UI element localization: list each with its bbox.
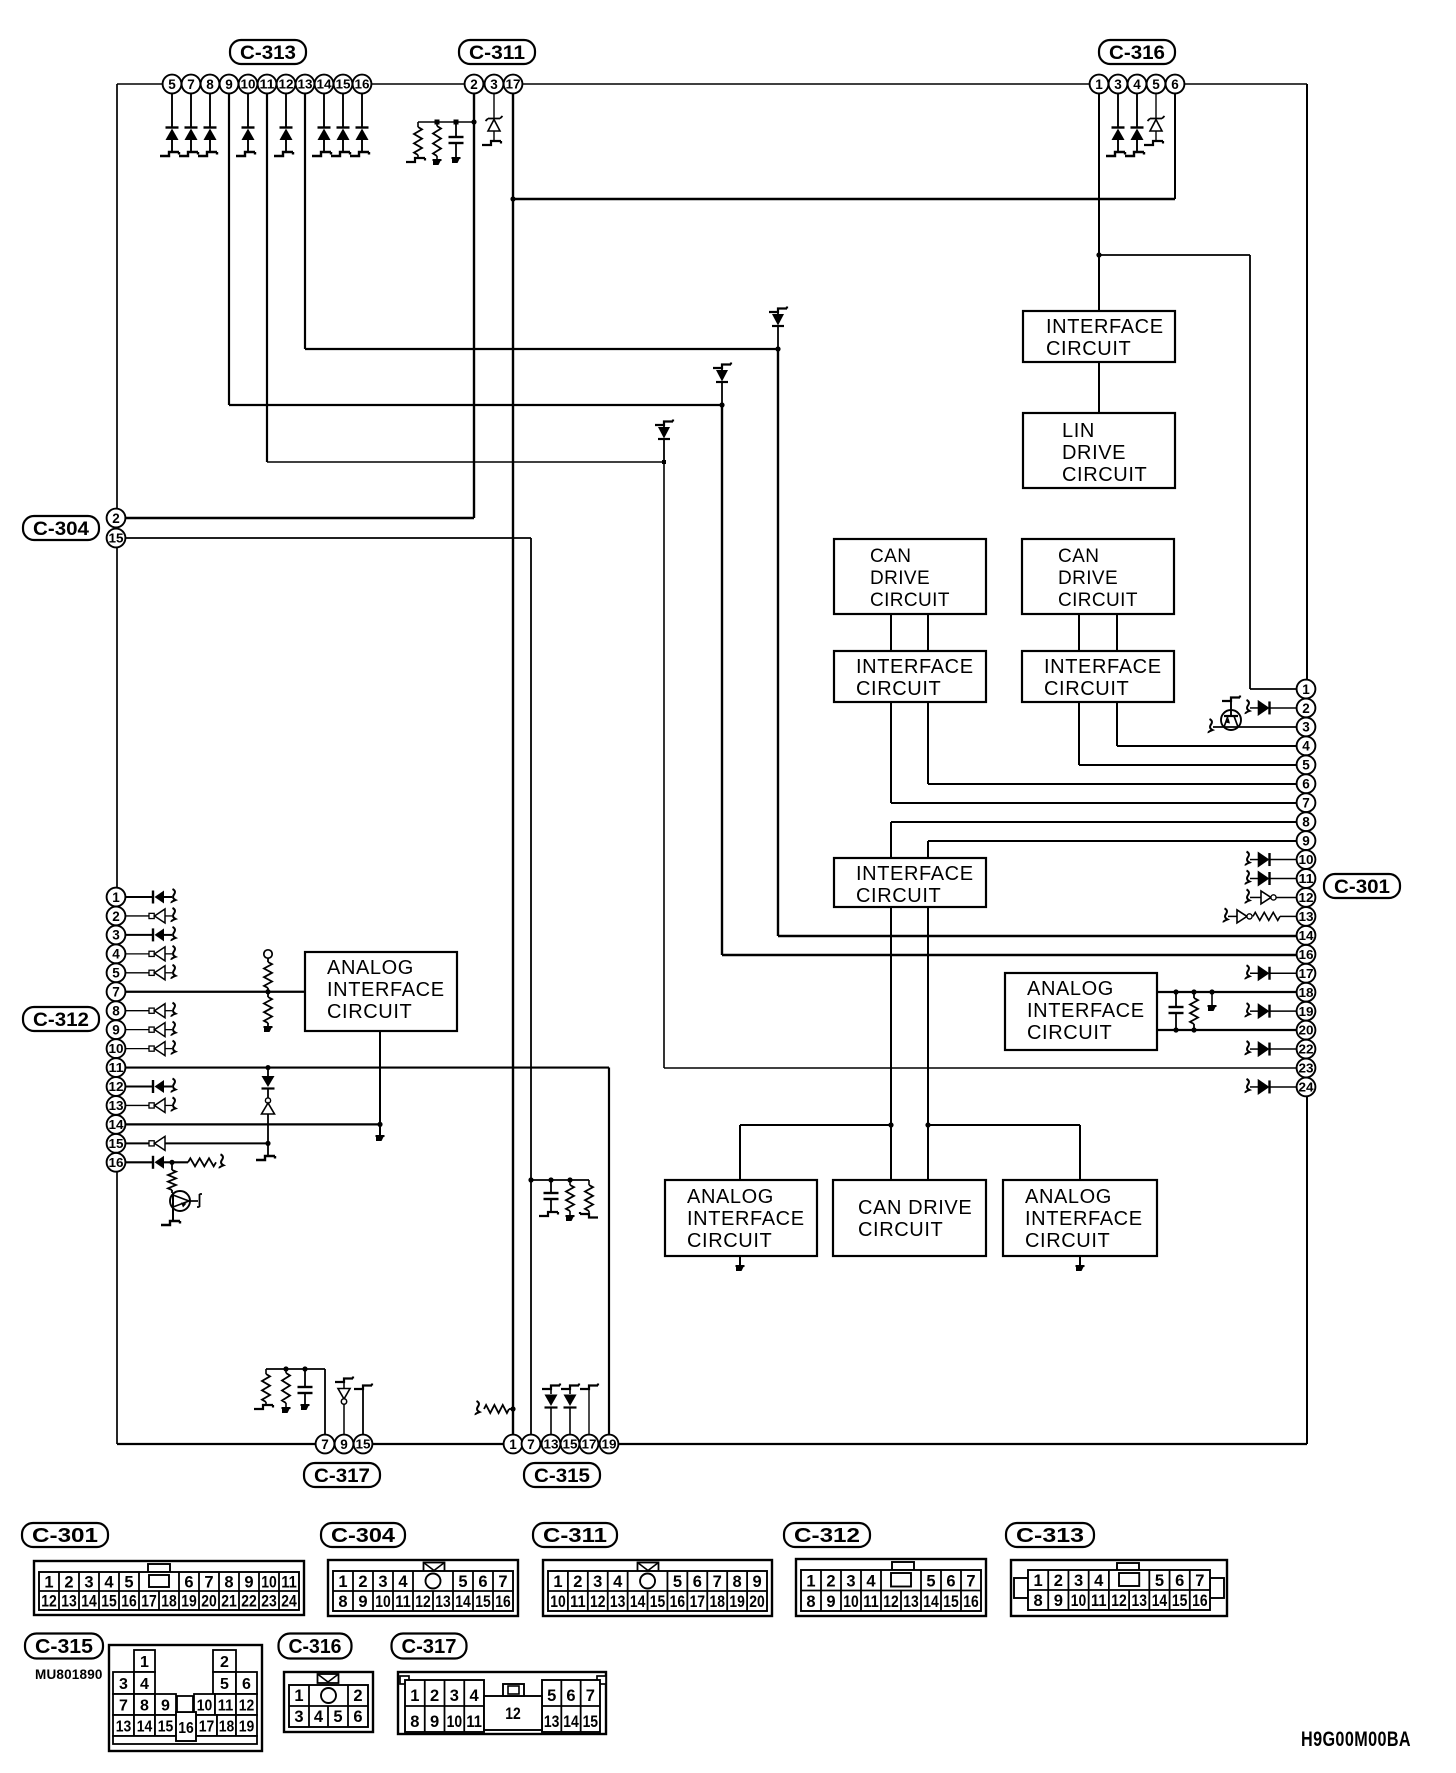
svg-text:7: 7 xyxy=(527,1437,535,1452)
svg-text:INTERFACE: INTERFACE xyxy=(327,979,445,1001)
svg-text:15: 15 xyxy=(943,1593,959,1611)
svg-text:8: 8 xyxy=(1302,814,1310,829)
svg-text:22: 22 xyxy=(1299,1043,1314,1057)
svg-text:2: 2 xyxy=(1302,701,1310,716)
svg-text:12: 12 xyxy=(1111,1592,1127,1610)
svg-text:3: 3 xyxy=(119,1676,128,1693)
svg-text:16: 16 xyxy=(963,1593,979,1611)
svg-text:5: 5 xyxy=(333,1708,342,1726)
svg-text:13: 13 xyxy=(61,1593,77,1611)
svg-text:5: 5 xyxy=(673,1573,682,1591)
svg-text:18: 18 xyxy=(709,1593,725,1611)
svg-text:9: 9 xyxy=(225,77,233,92)
svg-text:5: 5 xyxy=(458,1573,467,1591)
svg-text:15: 15 xyxy=(356,1438,371,1452)
svg-text:8: 8 xyxy=(140,1698,149,1715)
svg-text:1: 1 xyxy=(140,1654,149,1671)
svg-text:3: 3 xyxy=(112,928,120,943)
svg-text:15: 15 xyxy=(109,1137,124,1151)
svg-text:7: 7 xyxy=(321,1437,329,1452)
svg-text:6: 6 xyxy=(1302,777,1310,792)
svg-text:9: 9 xyxy=(244,1574,253,1592)
svg-text:4: 4 xyxy=(866,1572,876,1590)
svg-text:ANALOG: ANALOG xyxy=(1027,978,1114,1000)
svg-text:5: 5 xyxy=(124,1574,133,1592)
svg-text:4: 4 xyxy=(314,1708,324,1726)
svg-text:8: 8 xyxy=(112,1004,120,1019)
svg-text:11: 11 xyxy=(863,1593,879,1611)
svg-text:12: 12 xyxy=(41,1593,57,1611)
svg-text:15: 15 xyxy=(336,78,351,92)
svg-text:2: 2 xyxy=(826,1572,835,1590)
svg-text:15: 15 xyxy=(563,1438,578,1452)
svg-text:11: 11 xyxy=(109,1061,124,1075)
svg-text:13: 13 xyxy=(1131,1592,1147,1610)
svg-text:1: 1 xyxy=(410,1687,419,1705)
svg-text:C-313: C-313 xyxy=(1016,1525,1084,1547)
svg-text:17: 17 xyxy=(690,1593,706,1611)
svg-text:14: 14 xyxy=(923,1593,939,1611)
svg-text:9: 9 xyxy=(826,1593,835,1611)
svg-text:12: 12 xyxy=(883,1593,899,1611)
svg-text:12: 12 xyxy=(279,78,294,92)
svg-text:CIRCUIT: CIRCUIT xyxy=(856,885,941,907)
svg-text:9: 9 xyxy=(161,1698,170,1715)
svg-text:C-316: C-316 xyxy=(1109,42,1165,64)
svg-text:16: 16 xyxy=(1192,1592,1208,1610)
svg-text:12: 12 xyxy=(590,1593,606,1611)
svg-text:14: 14 xyxy=(563,1713,579,1731)
svg-text:15: 15 xyxy=(1172,1592,1188,1610)
svg-text:C-311: C-311 xyxy=(469,42,525,64)
svg-text:5: 5 xyxy=(926,1572,935,1590)
svg-text:6: 6 xyxy=(946,1572,955,1590)
svg-text:5: 5 xyxy=(1302,758,1310,773)
svg-text:13: 13 xyxy=(116,1719,132,1736)
svg-text:C-316: C-316 xyxy=(289,1636,342,1658)
svg-text:10: 10 xyxy=(447,1713,463,1731)
svg-text:4: 4 xyxy=(1133,77,1141,92)
svg-text:14: 14 xyxy=(317,78,332,92)
svg-text:17: 17 xyxy=(1299,967,1314,981)
svg-text:14: 14 xyxy=(109,1118,124,1132)
svg-text:22: 22 xyxy=(241,1593,257,1611)
svg-text:2: 2 xyxy=(64,1574,73,1592)
svg-text:C-315: C-315 xyxy=(35,1636,93,1658)
svg-text:10: 10 xyxy=(550,1593,566,1611)
svg-text:8: 8 xyxy=(733,1573,742,1591)
svg-text:2: 2 xyxy=(112,511,120,526)
svg-text:19: 19 xyxy=(1299,1005,1314,1019)
svg-text:1: 1 xyxy=(44,1574,53,1592)
svg-text:6: 6 xyxy=(566,1687,575,1705)
svg-text:12: 12 xyxy=(415,1593,431,1611)
svg-text:12: 12 xyxy=(239,1698,255,1715)
svg-text:15: 15 xyxy=(475,1593,491,1611)
svg-text:7: 7 xyxy=(1302,796,1310,811)
svg-text:15: 15 xyxy=(158,1719,174,1736)
svg-text:10: 10 xyxy=(241,78,256,92)
svg-text:DRIVE: DRIVE xyxy=(1058,568,1118,589)
svg-text:1: 1 xyxy=(294,1687,303,1705)
svg-text:4: 4 xyxy=(470,1687,480,1705)
svg-text:7: 7 xyxy=(204,1574,213,1592)
svg-text:14: 14 xyxy=(1152,1592,1168,1610)
svg-text:14: 14 xyxy=(1299,929,1314,943)
svg-text:24: 24 xyxy=(281,1593,297,1611)
svg-text:6: 6 xyxy=(242,1676,251,1693)
svg-text:15: 15 xyxy=(109,532,124,546)
svg-text:H9G00M00BA: H9G00M00BA xyxy=(1301,1728,1411,1751)
svg-text:5: 5 xyxy=(547,1687,556,1705)
svg-text:9: 9 xyxy=(340,1437,348,1452)
svg-text:13: 13 xyxy=(544,1713,560,1731)
svg-text:10: 10 xyxy=(375,1593,391,1611)
svg-text:7: 7 xyxy=(1195,1572,1204,1590)
svg-text:19: 19 xyxy=(729,1593,745,1611)
svg-text:CIRCUIT: CIRCUIT xyxy=(870,590,950,611)
svg-text:11: 11 xyxy=(1091,1592,1107,1610)
svg-text:1: 1 xyxy=(553,1573,562,1591)
svg-text:17: 17 xyxy=(141,1593,157,1611)
svg-text:1: 1 xyxy=(338,1573,347,1591)
svg-text:16: 16 xyxy=(1299,948,1314,962)
svg-text:7: 7 xyxy=(713,1573,722,1591)
svg-text:9: 9 xyxy=(1054,1592,1063,1610)
svg-text:4: 4 xyxy=(1302,739,1310,754)
svg-text:19: 19 xyxy=(181,1593,197,1611)
svg-text:7: 7 xyxy=(966,1572,975,1590)
svg-text:16: 16 xyxy=(109,1156,124,1170)
svg-text:13: 13 xyxy=(544,1438,559,1452)
svg-text:11: 11 xyxy=(466,1713,482,1731)
svg-text:7: 7 xyxy=(112,985,120,1000)
svg-text:7: 7 xyxy=(586,1687,595,1705)
svg-text:2: 2 xyxy=(573,1573,582,1591)
svg-text:8: 8 xyxy=(410,1713,419,1731)
svg-text:4: 4 xyxy=(1094,1572,1104,1590)
svg-text:4: 4 xyxy=(104,1574,114,1592)
svg-text:8: 8 xyxy=(338,1593,347,1611)
svg-text:8: 8 xyxy=(224,1574,233,1592)
svg-text:MU801890: MU801890 xyxy=(35,1667,103,1682)
svg-text:5: 5 xyxy=(112,966,120,981)
svg-text:9: 9 xyxy=(752,1573,761,1591)
svg-text:17: 17 xyxy=(582,1438,597,1452)
svg-text:11: 11 xyxy=(260,78,275,92)
svg-text:CIRCUIT: CIRCUIT xyxy=(1058,590,1138,611)
svg-text:24: 24 xyxy=(1299,1081,1314,1095)
svg-text:4: 4 xyxy=(613,1573,623,1591)
svg-text:INTERFACE: INTERFACE xyxy=(1046,316,1164,338)
svg-text:2: 2 xyxy=(112,909,120,924)
svg-text:16: 16 xyxy=(178,1720,194,1737)
svg-text:15: 15 xyxy=(583,1713,599,1731)
svg-text:10: 10 xyxy=(1299,853,1314,867)
svg-text:12: 12 xyxy=(505,1705,521,1723)
svg-text:19: 19 xyxy=(239,1719,255,1736)
svg-text:9: 9 xyxy=(430,1713,439,1731)
svg-text:CIRCUIT: CIRCUIT xyxy=(1044,678,1129,700)
svg-text:9: 9 xyxy=(1302,833,1310,848)
svg-text:13: 13 xyxy=(298,78,313,92)
svg-text:DRIVE: DRIVE xyxy=(870,568,930,589)
svg-text:9: 9 xyxy=(358,1593,367,1611)
svg-text:5: 5 xyxy=(220,1676,229,1693)
svg-text:CIRCUIT: CIRCUIT xyxy=(1027,1022,1112,1044)
svg-text:8: 8 xyxy=(806,1593,815,1611)
svg-text:INTERFACE: INTERFACE xyxy=(687,1208,805,1230)
svg-text:11: 11 xyxy=(395,1593,411,1611)
svg-text:CIRCUIT: CIRCUIT xyxy=(327,1001,412,1023)
svg-text:8: 8 xyxy=(1034,1592,1043,1610)
svg-text:14: 14 xyxy=(137,1719,153,1736)
svg-text:7: 7 xyxy=(498,1573,507,1591)
svg-text:4: 4 xyxy=(112,947,120,962)
svg-text:17: 17 xyxy=(506,78,521,92)
svg-text:C-313: C-313 xyxy=(240,42,296,64)
svg-text:12: 12 xyxy=(109,1080,124,1094)
svg-text:2: 2 xyxy=(430,1687,439,1705)
svg-text:13: 13 xyxy=(903,1593,919,1611)
svg-text:C-317: C-317 xyxy=(402,1636,457,1658)
svg-text:3: 3 xyxy=(294,1708,303,1726)
svg-text:11: 11 xyxy=(570,1593,586,1611)
svg-text:6: 6 xyxy=(1175,1572,1184,1590)
svg-text:19: 19 xyxy=(602,1438,617,1452)
svg-text:C-301: C-301 xyxy=(32,1525,98,1547)
svg-text:6: 6 xyxy=(184,1574,193,1592)
svg-text:ANALOG: ANALOG xyxy=(687,1186,774,1208)
svg-text:CIRCUIT: CIRCUIT xyxy=(858,1219,943,1241)
svg-text:16: 16 xyxy=(355,78,370,92)
svg-text:C-304: C-304 xyxy=(331,1525,396,1547)
svg-text:11: 11 xyxy=(1299,872,1314,886)
svg-text:6: 6 xyxy=(1171,77,1179,92)
svg-text:1: 1 xyxy=(1095,77,1103,92)
svg-text:C-304: C-304 xyxy=(33,518,89,540)
svg-text:13: 13 xyxy=(1299,910,1314,924)
svg-text:CIRCUIT: CIRCUIT xyxy=(1046,338,1131,360)
svg-text:CIRCUIT: CIRCUIT xyxy=(687,1230,772,1252)
svg-text:15: 15 xyxy=(650,1593,666,1611)
svg-text:C-301: C-301 xyxy=(1334,876,1390,898)
svg-text:14: 14 xyxy=(455,1593,471,1611)
svg-text:6: 6 xyxy=(353,1708,362,1726)
svg-text:3: 3 xyxy=(846,1572,855,1590)
svg-text:INTERFACE: INTERFACE xyxy=(1044,656,1162,678)
svg-text:15: 15 xyxy=(101,1593,117,1611)
svg-text:C-317: C-317 xyxy=(314,1465,370,1487)
svg-text:14: 14 xyxy=(630,1593,646,1611)
svg-text:CIRCUIT: CIRCUIT xyxy=(1062,464,1147,486)
svg-text:3: 3 xyxy=(593,1573,602,1591)
svg-text:INTERFACE: INTERFACE xyxy=(1025,1208,1143,1230)
svg-text:INTERFACE: INTERFACE xyxy=(856,656,974,678)
svg-text:10: 10 xyxy=(261,1574,277,1592)
svg-text:DRIVE: DRIVE xyxy=(1062,442,1126,464)
svg-text:3: 3 xyxy=(378,1573,387,1591)
svg-text:13: 13 xyxy=(109,1099,124,1113)
svg-text:CAN DRIVE: CAN DRIVE xyxy=(858,1197,972,1219)
svg-text:23: 23 xyxy=(261,1593,277,1611)
svg-text:2: 2 xyxy=(353,1687,362,1705)
svg-text:23: 23 xyxy=(1299,1062,1314,1076)
svg-text:21: 21 xyxy=(221,1593,237,1611)
svg-text:4: 4 xyxy=(140,1676,149,1693)
svg-text:CIRCUIT: CIRCUIT xyxy=(1025,1230,1110,1252)
svg-text:2: 2 xyxy=(1054,1572,1063,1590)
svg-text:6: 6 xyxy=(693,1573,702,1591)
svg-text:INTERFACE: INTERFACE xyxy=(856,863,974,885)
svg-text:10: 10 xyxy=(843,1593,859,1611)
svg-text:20: 20 xyxy=(1299,1024,1314,1038)
svg-text:C-312: C-312 xyxy=(33,1009,89,1031)
svg-text:INTERFACE: INTERFACE xyxy=(1027,1000,1145,1022)
svg-text:2: 2 xyxy=(358,1573,367,1591)
svg-text:7: 7 xyxy=(119,1698,128,1715)
svg-text:5: 5 xyxy=(1155,1572,1164,1590)
svg-text:C-312: C-312 xyxy=(794,1525,860,1547)
svg-text:10: 10 xyxy=(197,1698,213,1715)
svg-text:3: 3 xyxy=(1114,77,1122,92)
svg-text:1: 1 xyxy=(1034,1572,1043,1590)
svg-text:ANALOG: ANALOG xyxy=(327,957,414,979)
svg-text:C-315: C-315 xyxy=(534,1465,590,1487)
svg-text:18: 18 xyxy=(219,1719,235,1736)
svg-text:CAN: CAN xyxy=(870,546,911,567)
svg-text:9: 9 xyxy=(112,1022,120,1037)
svg-text:8: 8 xyxy=(206,77,214,92)
svg-text:CAN: CAN xyxy=(1058,546,1099,567)
svg-text:10: 10 xyxy=(109,1042,124,1056)
svg-text:6: 6 xyxy=(478,1573,487,1591)
svg-text:16: 16 xyxy=(495,1593,511,1611)
svg-text:3: 3 xyxy=(1302,720,1310,735)
svg-text:3: 3 xyxy=(1074,1572,1083,1590)
svg-text:16: 16 xyxy=(670,1593,686,1611)
svg-text:1: 1 xyxy=(112,890,120,905)
svg-text:2: 2 xyxy=(470,77,478,92)
svg-text:14: 14 xyxy=(81,1593,97,1611)
svg-text:1: 1 xyxy=(1302,682,1310,697)
svg-text:4: 4 xyxy=(398,1573,408,1591)
svg-text:3: 3 xyxy=(84,1574,93,1592)
svg-text:20: 20 xyxy=(749,1593,765,1611)
svg-text:5: 5 xyxy=(168,77,176,92)
svg-text:2: 2 xyxy=(220,1654,229,1671)
svg-text:13: 13 xyxy=(610,1593,626,1611)
svg-text:CIRCUIT: CIRCUIT xyxy=(856,678,941,700)
svg-text:5: 5 xyxy=(1152,77,1160,92)
svg-text:11: 11 xyxy=(281,1574,297,1592)
svg-text:16: 16 xyxy=(121,1593,137,1611)
svg-text:1: 1 xyxy=(509,1437,517,1452)
svg-text:ANALOG: ANALOG xyxy=(1025,1186,1112,1208)
svg-text:C-311: C-311 xyxy=(543,1525,607,1547)
svg-text:LIN: LIN xyxy=(1062,420,1095,442)
svg-text:1: 1 xyxy=(806,1572,815,1590)
svg-text:7: 7 xyxy=(187,77,195,92)
svg-text:10: 10 xyxy=(1071,1592,1087,1610)
svg-text:18: 18 xyxy=(1299,986,1314,1000)
svg-text:20: 20 xyxy=(201,1593,217,1611)
svg-text:3: 3 xyxy=(450,1687,459,1705)
svg-text:17: 17 xyxy=(199,1719,215,1736)
svg-text:13: 13 xyxy=(435,1593,451,1611)
svg-text:11: 11 xyxy=(218,1698,234,1715)
svg-text:12: 12 xyxy=(1299,891,1314,905)
svg-text:3: 3 xyxy=(490,77,498,92)
svg-text:18: 18 xyxy=(161,1593,177,1611)
